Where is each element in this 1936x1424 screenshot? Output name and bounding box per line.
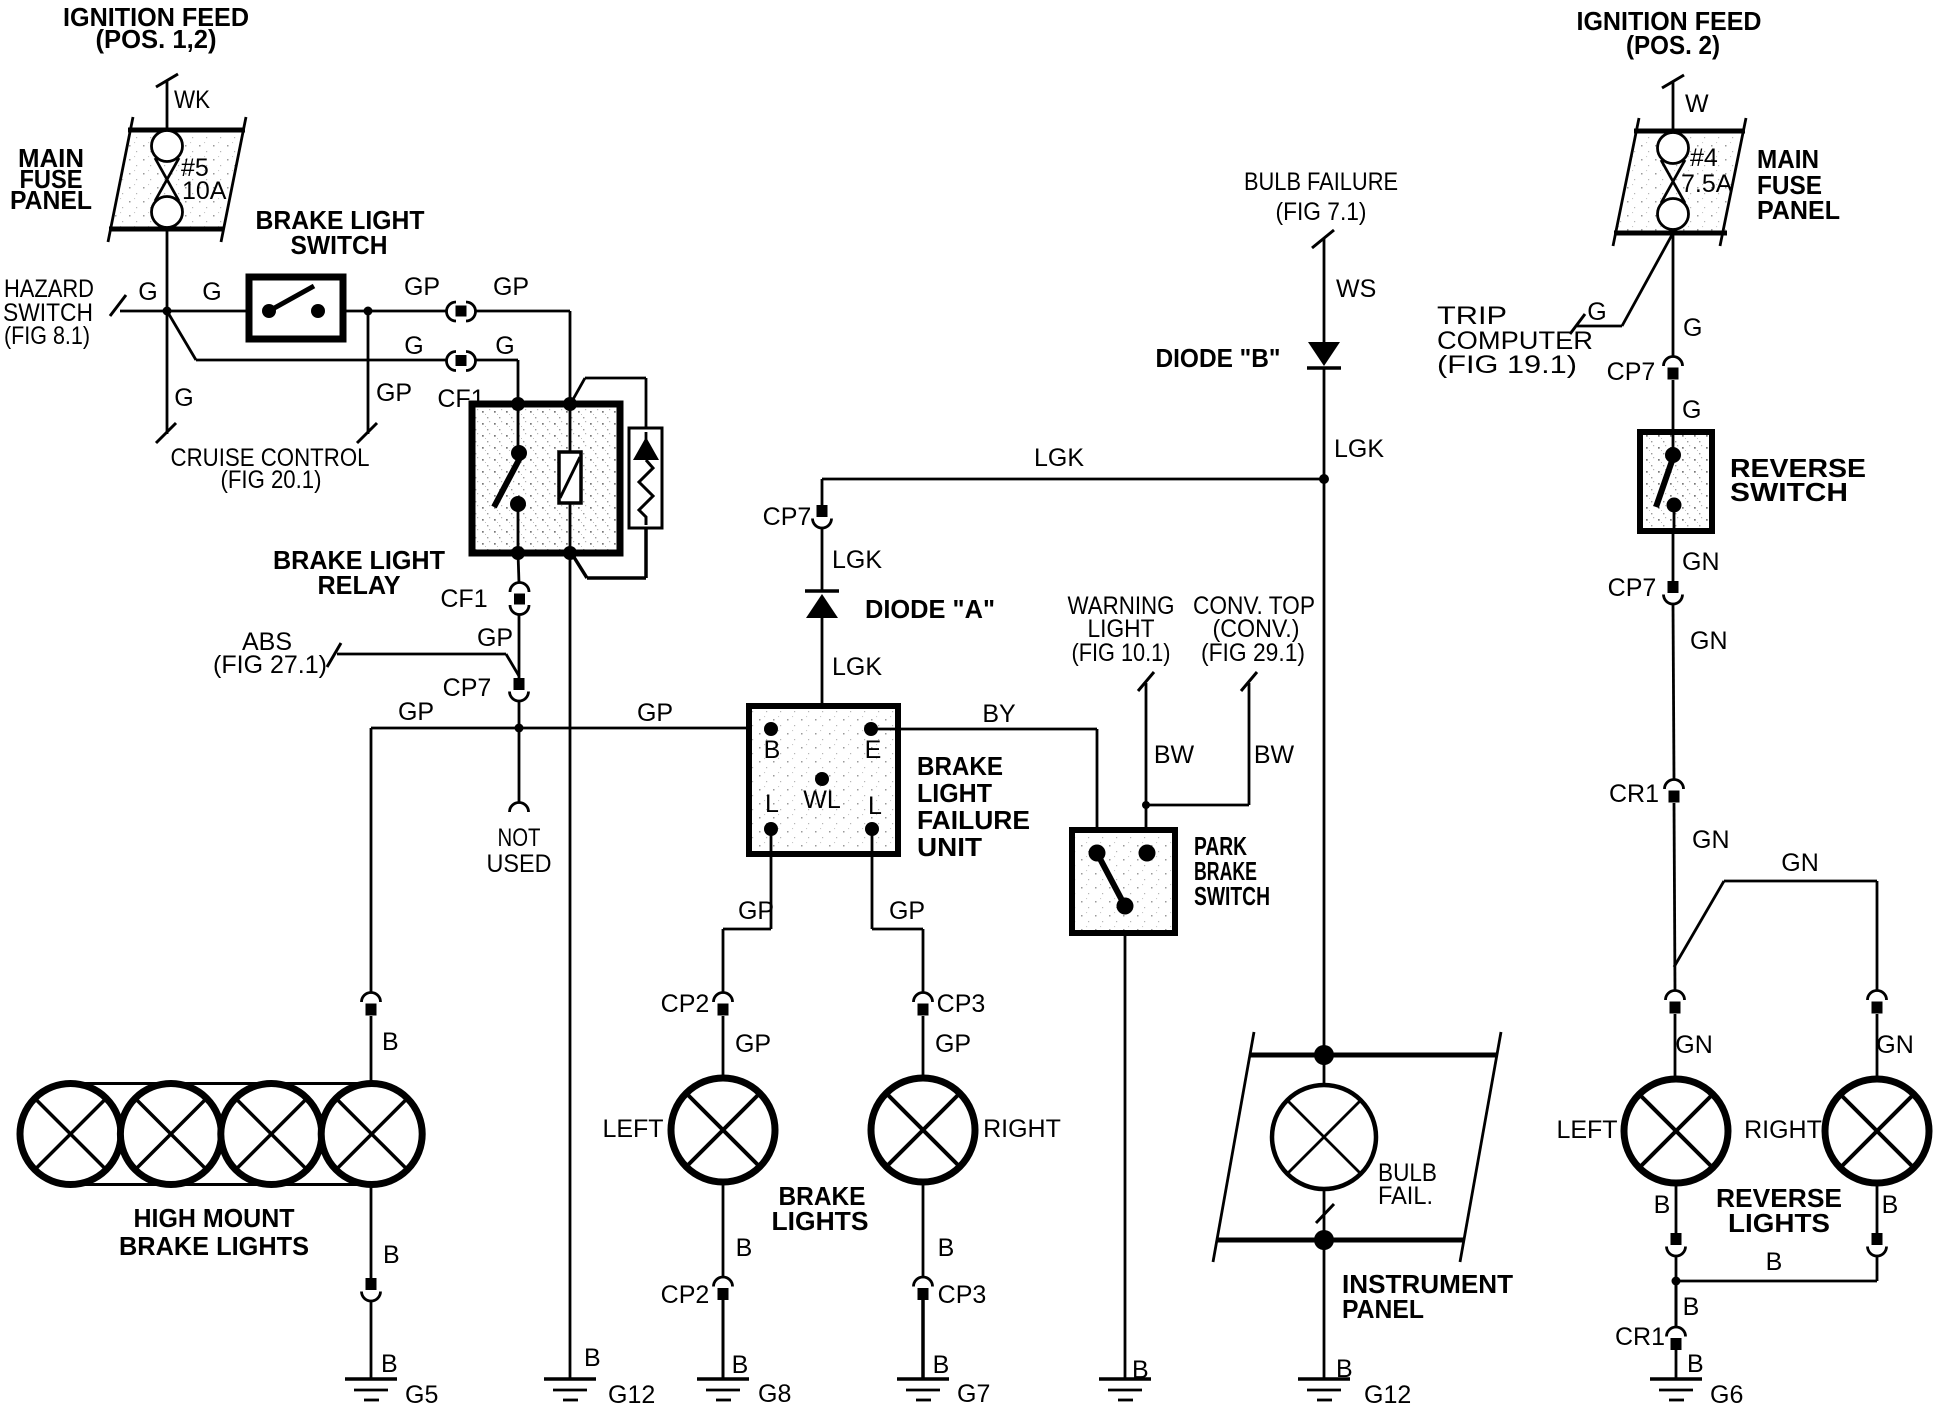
node GP labels on bus [398,698,673,727]
wire LGK corner down to CP7 [821,479,824,505]
wire high mount lamps down [370,1185,373,1279]
node CF1 label row2 [437,385,484,413]
wire branch to right reverse lamp [1674,881,1877,991]
wire CP7 to reverse switch [1672,380,1675,432]
node W wire label [1685,90,1709,118]
wire GP bus horizontal [371,727,771,730]
wire CP2 to ground G8 [722,1300,725,1379]
connector left reverse feed [1666,991,1685,1014]
node G12 label (left) [608,1381,655,1409]
svg-text:CP2: CP2 [661,1281,710,1309]
wire right brake lamp down [922,1182,925,1277]
ground G5 [345,1379,397,1400]
node B label below junction [1683,1293,1700,1321]
svg-text:CR1: CR1 [1609,780,1659,808]
wire row2 after CF1 to relay top-left [476,360,518,404]
node GN labels above reverse lamps [1675,1031,1914,1059]
svg-text:GP: GP [889,897,925,925]
node G7 label [957,1380,990,1408]
svg-text:SWITCH: SWITCH [1194,881,1270,911]
switch S3 reverse switch [1640,432,1712,531]
wire reverse switch to CP7 lower [1672,531,1675,581]
wire trip computer branch with tick [1570,233,1673,334]
ground G12 (left) [544,1379,596,1400]
svg-text:G: G [404,332,423,360]
wire CR1 to ground G6 [1675,1350,1678,1379]
node B labels at G8 G7 [732,1351,950,1379]
svg-text:G: G [1587,298,1606,326]
wire CP7 to diode A [821,528,824,591]
wire park brake switch to ground [1124,933,1127,1379]
diode D2 "B" [1307,342,1341,368]
svg-text:(FIG 19.1): (FIG 19.1) [1437,351,1577,379]
svg-text:FAILURE: FAILURE [917,805,1030,835]
node LGK label on horizontal bus [1034,444,1084,472]
svg-text:BW: BW [1154,741,1195,769]
node fuse value label #4 7.5A [1681,144,1733,198]
lamp right reverse light [1825,1079,1929,1183]
svg-text:GN: GN [1876,1031,1914,1059]
connector CP7 (right column lower) [1664,581,1683,604]
svg-text:BRAKE LIGHTS: BRAKE LIGHTS [119,1231,309,1261]
svg-text:BY: BY [982,700,1016,728]
node G label on cruise stub [174,384,193,412]
wire CP3 to right brake lamp [922,1016,925,1078]
svg-text:G12: G12 [1364,1381,1411,1409]
node HIGH MOUNT BRAKE LIGHTS label [119,1203,309,1261]
lamp high mount brake lights (4 bulbs) [20,1084,422,1185]
svg-text:FAIL.: FAIL. [1378,1182,1433,1210]
node B label at right G12 [1336,1355,1353,1383]
svg-text:GN: GN [1692,826,1730,854]
svg-text:G6: G6 [1710,1381,1743,1409]
connector CP2 (lower) [714,1277,733,1300]
node G5 label [405,1381,438,1409]
node RIGHT label reverse [1744,1116,1822,1144]
wire diode B down to instrument panel [1323,368,1326,1055]
node BRAKE LIGHT SWITCH label [256,205,425,260]
wire BY bus from pin E to park brake switch [871,729,1097,853]
node junction instrument panel bottom [1314,1230,1334,1250]
svg-text:L: L [765,790,779,818]
ground G8 [697,1379,749,1400]
svg-text:CR1: CR1 [1615,1323,1665,1351]
svg-text:B: B [381,1350,398,1378]
svg-text:B: B [736,1234,753,1262]
svg-text:GN: GN [1781,849,1819,877]
svg-text:B: B [584,1344,601,1372]
connector high mount feed [362,993,381,1016]
node junction instrument panel top [1314,1045,1334,1065]
svg-text:B: B [764,736,781,764]
node BRAKE LIGHT RELAY label [273,545,445,600]
node MAIN FUSE PANEL label (left) [10,143,92,215]
svg-text:W: W [1685,90,1709,118]
svg-text:E: E [865,736,882,764]
node CP7 label middle column [763,503,812,531]
svg-text:7.5A: 7.5A [1681,170,1733,198]
node PARK BRAKE SWITCH label [1194,831,1270,911]
svg-text:GP: GP [477,624,513,652]
diode D1 "A" [805,591,839,618]
node ABS (FIG 27.1) label [213,628,327,679]
node junction BW [1142,801,1150,809]
node GP label above CP7 [477,624,513,652]
connector CP2 (upper) [714,993,733,1016]
node G wire labels on hazard bus [138,278,221,306]
node G12 label (right) [1364,1381,1411,1409]
node HAZARD SWITCH (FIG 8.1) label [3,275,94,350]
wire fuse to CP7 [1672,233,1675,357]
wire failure unit L right to CP3 [872,829,923,993]
node junction LGK [1319,474,1329,484]
node WARNING LIGHT (FIG 10.1) label [1068,592,1175,667]
node G labels around CF1 connector [404,332,514,360]
node INSTRUMENT PANEL label [1342,1269,1513,1324]
svg-text:CP7: CP7 [1608,574,1657,602]
node CP7 label right lower [1608,574,1657,602]
svg-text:L: L [868,792,882,820]
svg-text:G: G [1682,396,1701,424]
svg-text:SWITCH: SWITCH [1730,477,1848,507]
node junction GP bus [515,724,524,733]
svg-text:GP: GP [637,699,673,727]
svg-text:USED: USED [487,850,552,878]
module U1 brake light failure unit [749,706,898,854]
svg-text:LGK: LGK [832,546,882,574]
node GN label above CR1 [1690,627,1728,655]
svg-text:10A: 10A [182,177,227,205]
node G label below CP7 [1682,396,1701,424]
node CR1 label lower [1615,1323,1665,1351]
svg-text:LGK: LGK [1334,435,1384,463]
node CP3 label lower [938,1281,987,1309]
svg-text:G: G [174,384,193,412]
wire B bus joining reverse lamps [1676,1256,1877,1281]
connector CP7 (middle column) [813,505,832,528]
fuse #4 7.5A main fuse panel [1613,118,1746,246]
lamp right brake light [871,1078,975,1182]
svg-text:(FIG 29.1): (FIG 29.1) [1201,639,1305,667]
wire WK ignition feed stub with tick [156,74,178,130]
connector GP (inline, row1) [447,302,476,321]
svg-text:G: G [1683,314,1702,342]
node LGK label above diode A [832,546,882,574]
svg-text:(FIG 10.1): (FIG 10.1) [1072,639,1171,667]
node BRAKE LIGHT FAILURE UNIT label [917,751,1030,862]
node CONV. TOP (CONV.) (FIG 29.1) label [1193,592,1315,667]
lamp bulb failure indicator [1272,1055,1376,1189]
wire CP7 to CR1 [1673,604,1674,780]
wire CF1 to CP7 [518,614,521,678]
svg-text:LGK: LGK [1034,444,1084,472]
node junction at brake switch output [364,307,373,316]
svg-text:(FIG 8.1): (FIG 8.1) [4,322,90,350]
wire connector to high mount lamps [370,1016,373,1084]
svg-text:GP: GP [398,698,434,726]
svg-text:G5: G5 [405,1381,438,1409]
svg-text:LEFT: LEFT [1556,1116,1617,1144]
wire cruise control stub from junction with tick [156,311,176,443]
svg-text:G: G [202,278,221,306]
node WS wire label [1336,275,1376,303]
wire CP7 to GP bus junction [518,701,521,733]
wire bulb failure stub with tick [1312,230,1334,342]
svg-text:GP: GP [735,1030,771,1058]
svg-text:WL: WL [803,786,841,814]
node B labels below reverse lamps [1654,1191,1899,1219]
switch S2 park brake switch [1072,830,1175,933]
wire long vertical from relay coil to ground G12 [569,553,572,1379]
node CP3 label upper [937,990,986,1018]
connector CP3 (upper) [914,993,933,1016]
node B label park brake ground [1132,1356,1149,1384]
svg-text:G: G [138,278,157,306]
wire left brake lamp down [722,1182,725,1277]
connector CP7 (right column upper) [1664,357,1683,380]
svg-text:G7: G7 [957,1380,990,1408]
svg-text:GN: GN [1675,1031,1713,1059]
node BW wire labels [1154,741,1295,769]
svg-text:G12: G12 [608,1381,655,1409]
svg-text:(POS. 1,2): (POS. 1,2) [96,24,217,54]
node GP labels around GP connector row1 [404,273,529,301]
wire hazard switch G bus with end tick [110,295,249,316]
wire CP3 to ground G7 [921,1300,925,1379]
node G6 label [1710,1381,1743,1409]
svg-text:(FIG 20.1): (FIG 20.1) [221,466,322,494]
svg-text:GP: GP [376,379,412,407]
svg-text:(POS. 2): (POS. 2) [1626,30,1720,60]
svg-text:RIGHT: RIGHT [983,1115,1061,1143]
svg-text:GP: GP [493,273,529,301]
svg-text:B: B [1687,1350,1704,1378]
node B labels below brake lamps [736,1234,955,1262]
wire junction to CR1 lower [1675,1281,1678,1327]
svg-text:CP3: CP3 [938,1281,987,1309]
svg-text:LEFT: LEFT [602,1115,663,1143]
svg-text:B: B [1683,1293,1700,1321]
node CP2 label upper [661,990,710,1018]
svg-text:GP: GP [404,273,440,301]
node GP labels under failure unit [738,897,925,925]
node CP7 label left column [443,674,492,702]
node CRUISE CONTROL (FIG 20.1) label [171,444,370,494]
svg-text:(FIG 27.1): (FIG 27.1) [213,651,327,679]
ground park brake [1099,1379,1151,1400]
svg-text:GN: GN [1690,627,1728,655]
node B label on bus [1766,1248,1783,1276]
svg-text:UNIT: UNIT [917,832,982,862]
svg-text:CP3: CP3 [937,990,986,1018]
wire GP connector to corner, down to relay top-right [476,311,570,404]
wire ABS branch with tick into CP7 [327,643,519,676]
svg-text:WK: WK [174,86,210,114]
wire conv top stub with tick [1146,672,1257,805]
resistor R1 relay shunt with arrow [571,378,662,578]
svg-text:B: B [383,1241,400,1269]
fuse #5 10A main fuse panel [108,117,246,242]
node pin labels B E WL L L [764,736,882,820]
svg-text:NOT: NOT [498,824,541,852]
node WK wire label [174,86,210,114]
svg-text:CP2: CP2 [661,990,710,1018]
node G8 label [758,1380,791,1408]
node junction B bus [1672,1277,1681,1286]
wire diagonal from junction to row2 G line [167,311,196,360]
svg-text:RELAY: RELAY [318,570,401,600]
svg-text:GP: GP [935,1030,971,1058]
svg-text:CP7: CP7 [763,503,812,531]
node B label at left G12 [584,1344,601,1372]
svg-text:CP7: CP7 [1607,358,1656,386]
svg-text:DIODE "A": DIODE "A" [865,594,995,624]
lamp left reverse light [1624,1079,1728,1183]
svg-text:PANEL: PANEL [1342,1294,1424,1324]
wire failure unit L left to CP2 [723,829,771,993]
node B label below high mount lamps [383,1241,400,1269]
node NOT USED label [487,824,552,878]
node RIGHT label [983,1115,1061,1143]
wire warning light stub with tick [1138,672,1154,853]
svg-text:GN: GN [1682,548,1720,576]
lamp left brake light [671,1078,775,1182]
wire diode A to failure unit WL [821,618,824,779]
svg-text:B: B [1882,1191,1899,1219]
node B label at G5 [381,1350,398,1378]
svg-text:CP7: CP7 [443,674,492,702]
wire reverse lamps down [1676,1183,1877,1233]
switch S1 brake light switch [249,277,343,339]
connector CP3 (lower) [914,1277,933,1300]
ground G12 (right) [1298,1379,1350,1400]
ground G7 [897,1379,949,1400]
node LGK label below diode B [1334,435,1384,463]
svg-text:LIGHTS: LIGHTS [1728,1208,1830,1238]
wire instrument panel to ground G12 [1323,1240,1326,1379]
node CP2 label lower [661,1281,710,1309]
node BY wire label [982,700,1016,728]
wire row2 G line to CF1 connector [196,359,446,362]
connector CF1 (inline, row2) [447,352,476,371]
svg-text:LIGHTS: LIGHTS [772,1206,869,1236]
svg-text:CF1: CF1 [440,585,487,613]
connector left reverse ground side [1667,1233,1686,1256]
node G label above CP7 [1683,314,1702,342]
node BULB FAIL. label [1378,1159,1437,1210]
svg-text:#4: #4 [1690,144,1718,172]
wire GP bus corner down to high mount [370,728,373,993]
svg-text:WS: WS [1336,275,1376,303]
svg-text:B: B [938,1234,955,1262]
svg-text:PANEL: PANEL [1757,195,1840,225]
node TRIP COMPUTER (FIG 19.1) label [1437,302,1593,379]
node GN label below reverse switch [1682,548,1720,576]
wire lamp to bottom with tick [1316,1189,1334,1240]
relay K1 brake light relay [472,397,620,560]
node BULB FAILURE (FIG 7.1) label [1244,168,1398,226]
svg-text:GP: GP [738,897,774,925]
svg-text:B: B [933,1351,950,1379]
svg-text:(FIG 7.1): (FIG 7.1) [1276,198,1367,226]
instrument panel frame [1213,1032,1501,1262]
svg-text:TRIP: TRIP [1437,302,1507,330]
ground G6 [1650,1379,1702,1400]
wire W ignition stub with tick [1662,75,1684,131]
node B label above high mount lamps [382,1028,399,1056]
svg-text:G: G [495,332,514,360]
wire CP2 to left brake lamp [722,1016,725,1078]
svg-text:BW: BW [1254,741,1295,769]
svg-text:LIGHT: LIGHT [917,778,992,808]
node LEFT label reverse [1556,1116,1617,1144]
node BRAKE LIGHTS label [772,1181,869,1236]
svg-text:B: B [1766,1248,1783,1276]
connector right reverse feed [1868,991,1887,1014]
svg-text:LGK: LGK [832,653,882,681]
node GN label on branch [1781,849,1819,877]
wire brake switch output to GP connector [343,310,446,313]
node B label at G6 [1687,1350,1704,1378]
svg-text:DIODE "B": DIODE "B" [1156,343,1281,373]
svg-text:B: B [1654,1191,1671,1219]
node LEFT label [602,1115,663,1143]
svg-text:PANEL: PANEL [10,185,92,215]
node LGK label below diode A [832,653,882,681]
connector CR1 (upper) [1665,780,1684,803]
svg-text:BULB FAILURE: BULB FAILURE [1244,168,1398,196]
connector CF1 (inline below relay) [510,553,529,615]
node REVERSE LIGHTS label [1716,1183,1842,1238]
connector CR1 (lower) [1667,1327,1686,1350]
svg-text:G8: G8 [758,1380,791,1408]
connector right reverse ground side [1868,1233,1887,1256]
svg-text:B: B [382,1028,399,1056]
node IGNITION FEED (POS. 2) title [1577,6,1762,60]
node CF1 label below relay [440,585,487,613]
node G label trip computer [1587,298,1606,326]
node DIODE "B" label [1156,343,1281,373]
node DIODE "A" label [865,594,995,624]
node junction hazard/fuse [163,307,172,316]
node REVERSE SWITCH label [1730,453,1866,507]
svg-text:SWITCH: SWITCH [291,230,388,260]
connector CP7 (left column) [510,678,529,701]
svg-text:HIGH MOUNT: HIGH MOUNT [134,1203,295,1233]
svg-text:BRAKE: BRAKE [917,751,1003,781]
node IGNITION FEED (POS. 1,2) title [63,2,249,54]
svg-text:B: B [732,1351,749,1379]
node CR1 label upper [1609,780,1659,808]
wire fuse output down to hazard G bus [166,229,169,311]
wire CR1 down left reverse column [1674,803,1675,991]
wire connectors to reverse lamps [1675,1014,1877,1079]
node GP labels above brake lamps [735,1030,971,1058]
node MAIN FUSE PANEL label (right) [1757,144,1840,225]
node GP label under brake switch output stub [376,379,412,407]
wire cruise stub from switch output with tick [357,311,377,443]
node GN label below CR1 [1692,826,1730,854]
wire connector to ground G5 [370,1301,373,1379]
node fuse value label #5 10A [181,154,227,205]
wire NOT USED stub with open end [510,733,529,812]
node CP7 label right upper [1607,358,1656,386]
svg-text:RIGHT: RIGHT [1744,1116,1822,1144]
wire LGK horizontal bus [822,478,1324,481]
connector high mount ground side [362,1278,381,1301]
